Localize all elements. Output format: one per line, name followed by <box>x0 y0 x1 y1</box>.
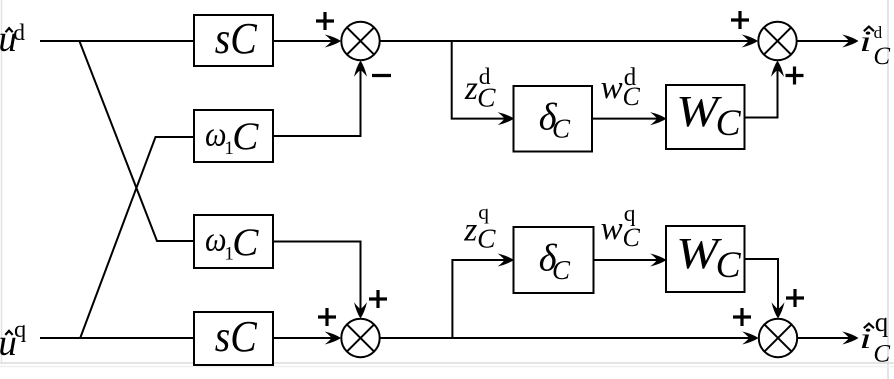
svg-text:ω: ω <box>205 115 227 154</box>
svg-text:q: q <box>14 316 26 343</box>
svg-text:C: C <box>623 82 641 111</box>
svg-text:sC: sC <box>215 13 258 63</box>
svg-text:C: C <box>716 103 742 144</box>
svg-text:ω: ω <box>205 220 227 259</box>
svg-text:C: C <box>477 82 496 113</box>
svg-text:C: C <box>623 223 641 252</box>
svg-text:d: d <box>13 20 25 46</box>
svg-text:C: C <box>716 245 742 286</box>
svg-text:C: C <box>873 43 890 70</box>
svg-text:sC: sC <box>215 311 258 361</box>
svg-text:z: z <box>464 70 478 107</box>
svg-text:z: z <box>463 211 477 248</box>
svg-text:C: C <box>552 255 571 285</box>
svg-text:w: w <box>601 70 623 106</box>
svg-text:d: d <box>874 23 883 42</box>
svg-text:q: q <box>875 307 889 337</box>
svg-text:w: w <box>601 211 623 247</box>
svg-text:C: C <box>477 223 496 254</box>
svg-text:C: C <box>873 340 890 367</box>
svg-text:C: C <box>552 113 571 143</box>
svg-text:C: C <box>232 221 259 264</box>
svg-text:q: q <box>478 200 489 224</box>
svg-text:C: C <box>232 115 259 158</box>
